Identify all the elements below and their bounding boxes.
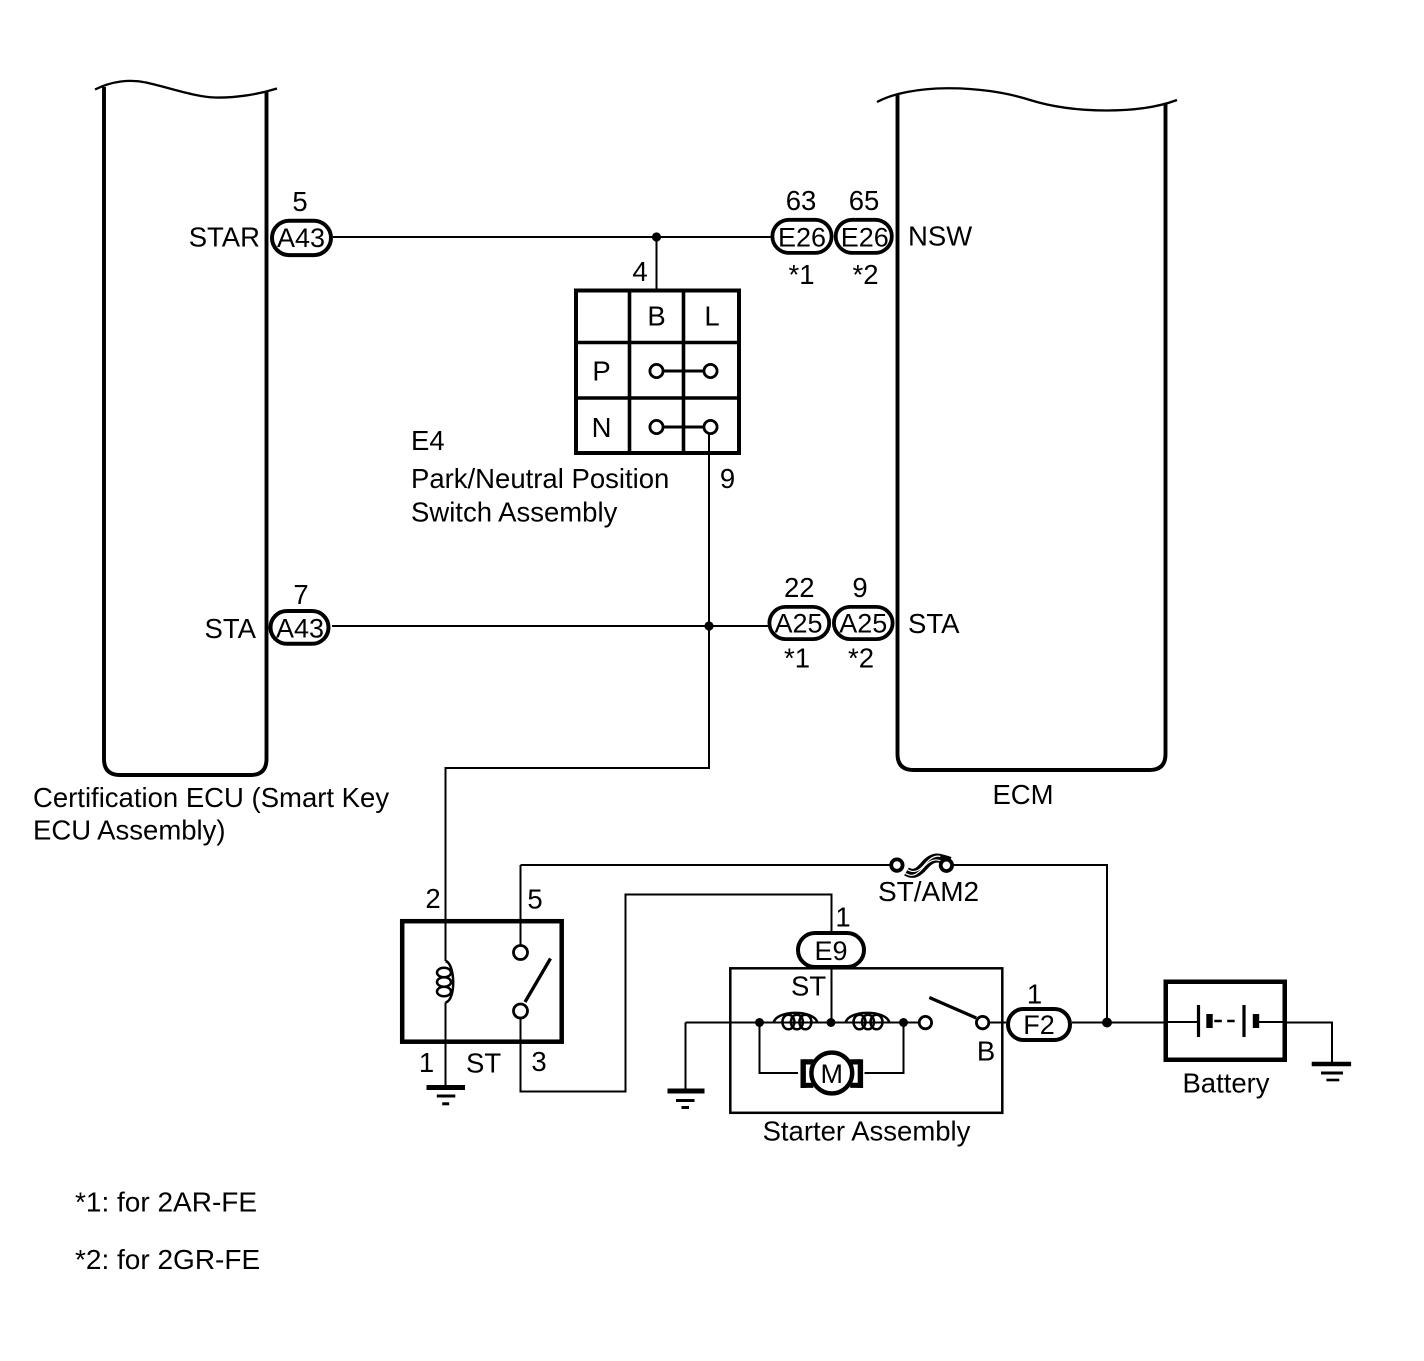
svg-text:A25: A25: [774, 609, 822, 639]
coil L2 starter: [846, 1013, 890, 1029]
wire F2 to battery: [1072, 1022, 1164, 1024]
svg-text:M: M: [821, 1059, 844, 1089]
svg-text:STA: STA: [205, 613, 257, 644]
wire STA row: [332, 625, 770, 627]
wire battery to ground: [1287, 1023, 1332, 1063]
svg-text:1: 1: [419, 1047, 434, 1078]
svg-text:Starter Assembly: Starter Assembly: [763, 1116, 971, 1147]
ground battery: [1312, 1064, 1351, 1080]
svg-text:ST: ST: [466, 1048, 501, 1079]
svg-text:NSW: NSW: [908, 221, 972, 252]
starter assembly box: [730, 968, 1002, 1113]
wire motor right: [865, 1023, 904, 1074]
ground starter wire: [685, 1023, 687, 1090]
wire to pin 4 of switch: [656, 237, 658, 289]
svg-text:9: 9: [720, 463, 735, 494]
wire E9 to starter coil junction: [831, 969, 833, 1023]
svg-text:N: N: [592, 412, 612, 443]
wire relay pin 1 to ground: [445, 1044, 447, 1087]
connector A25 pin 22: [769, 607, 829, 639]
wire motor left: [760, 1023, 799, 1074]
svg-text:A43: A43: [277, 223, 325, 253]
svg-text:E4: E4: [411, 425, 445, 456]
svg-text:Battery: Battery: [1182, 1068, 1269, 1099]
label E4 Park/Neutral Position Switch Assembly: [411, 425, 669, 528]
connector E26 pin 65: [836, 220, 892, 253]
svg-text:STA: STA: [908, 608, 960, 639]
svg-text:STAR: STAR: [189, 222, 260, 253]
wire relay pin 3 to E9: [521, 895, 832, 1092]
svg-text:E26: E26: [778, 223, 826, 253]
svg-text:A25: A25: [839, 609, 887, 639]
node junction on STA wire: [704, 621, 713, 630]
connector F2 pin 1: [1008, 1009, 1070, 1040]
connector E9 pin 1: [798, 933, 864, 967]
svg-text:3: 3: [531, 1046, 546, 1077]
wire relay pin 5 from ST/AM2 line: [520, 865, 522, 946]
svg-text:E26: E26: [841, 223, 889, 253]
battery cells: [1164, 1005, 1288, 1037]
svg-text:ST/AM2: ST/AM2: [878, 876, 979, 907]
connector E26 pin 63: [772, 220, 831, 253]
starter switch contact: [919, 998, 989, 1029]
svg-text:*2: *2: [848, 643, 874, 674]
wire pin 9 down to relay: [446, 433, 710, 921]
svg-text:P: P: [592, 356, 610, 387]
svg-text:*2: *2: [853, 259, 879, 290]
svg-text:63: 63: [786, 185, 817, 216]
svg-text:5: 5: [527, 884, 542, 915]
wire starter main line: [686, 1022, 920, 1024]
wire STAR row: [333, 236, 771, 238]
svg-text:1: 1: [1027, 979, 1042, 1010]
wire B to F2: [990, 1022, 1007, 1024]
motor M: [803, 1053, 861, 1094]
svg-text:Park/Neutral Position: Park/Neutral Position: [411, 463, 669, 494]
coil L1 starter: [774, 1013, 818, 1029]
svg-text:2: 2: [425, 883, 440, 914]
svg-text:L: L: [704, 301, 719, 332]
svg-text:E9: E9: [814, 936, 847, 966]
svg-text:4: 4: [632, 256, 647, 287]
contact P row: [650, 364, 717, 377]
label Certification ECU: [33, 782, 389, 846]
svg-text:9: 9: [852, 572, 867, 603]
svg-text:ST: ST: [791, 971, 826, 1002]
svg-text:B: B: [647, 301, 665, 332]
svg-text:*1: for 2AR-FE: *1: for 2AR-FE: [75, 1187, 257, 1218]
connector A43 pin 5: [272, 221, 331, 255]
svg-text:ECU Assembly): ECU Assembly): [33, 815, 226, 846]
svg-text:Certification ECU (Smart Key: Certification ECU (Smart Key: [33, 782, 389, 813]
node junction F2/battery: [1102, 1018, 1112, 1028]
svg-text:7: 7: [293, 579, 308, 610]
svg-text:B: B: [977, 1036, 995, 1067]
svg-text:ECM: ECM: [992, 779, 1053, 810]
svg-text:*2: for 2GR-FE: *2: for 2GR-FE: [75, 1244, 260, 1275]
svg-text:Switch Assembly: Switch Assembly: [411, 497, 618, 528]
contact N row: [650, 420, 717, 433]
relay switch: [514, 946, 551, 1019]
ECU box (Certification ECU): [95, 81, 277, 775]
wire ST/AM2 fuse line: [521, 865, 1108, 1023]
svg-text:22: 22: [784, 572, 815, 603]
connector A25 pin 9: [834, 607, 893, 639]
ECM box: [877, 88, 1177, 770]
svg-text:5: 5: [292, 186, 307, 217]
svg-text:A43: A43: [276, 614, 324, 644]
battery box: [1166, 982, 1285, 1060]
svg-text:65: 65: [849, 185, 880, 216]
table headers: [592, 301, 720, 444]
node junction on STAR wire: [652, 232, 661, 241]
ground relay: [427, 1088, 466, 1104]
svg-text:1: 1: [835, 902, 850, 933]
ground starter: [668, 1091, 705, 1108]
connector A43 pin 7: [271, 611, 329, 644]
relay ST box: [402, 921, 562, 1041]
svg-text:*1: *1: [789, 259, 815, 290]
svg-text:*1: *1: [784, 643, 810, 674]
svg-text:F2: F2: [1023, 1010, 1055, 1040]
relay coil: [437, 919, 453, 1044]
switch E4 table: [574, 289, 741, 456]
node j3: [899, 1018, 908, 1027]
node j2: [827, 1018, 836, 1027]
node j1: [755, 1018, 764, 1027]
fuse ST/AM2: [891, 856, 952, 875]
